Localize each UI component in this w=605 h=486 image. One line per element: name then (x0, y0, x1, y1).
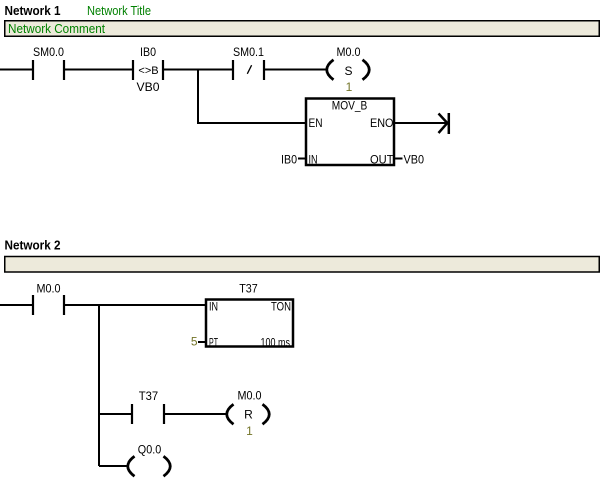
wire ENO output (394, 122, 447, 124)
svg-text:IN: IN (309, 153, 318, 167)
svg-text:Q0.0: Q0.0 (138, 443, 162, 457)
wire left rail to M0.0 (0, 304, 33, 306)
svg-text:SM0.1: SM0.1 (233, 45, 264, 59)
svg-text:M0.0: M0.0 (238, 389, 262, 403)
svg-text:Network Comment: Network Comment (8, 21, 105, 36)
svg-text:SM0.0: SM0.0 (33, 45, 64, 59)
pin IN dash (298, 158, 306, 160)
svg-text:VB0: VB0 (137, 80, 160, 94)
svg-text:ENO: ENO (370, 116, 394, 130)
contact M0.0 (33, 282, 64, 316)
network 1 header title (5, 3, 152, 18)
svg-text:IB0: IB0 (140, 45, 156, 59)
box MOV_B (306, 99, 394, 167)
wire SM0.0 to IB0 compare (64, 69, 133, 71)
coil M0.0 (R) 1 (227, 389, 270, 439)
svg-text:MOV_B: MOV_B (332, 99, 368, 113)
svg-text:Network 1: Network 1 (5, 3, 61, 18)
pin PT dash (198, 341, 206, 343)
contact T37 (132, 389, 164, 424)
wire branch to T37 contact (99, 413, 132, 415)
wire left rail to SM0.0 (0, 69, 33, 71)
open rung end arrow (439, 113, 449, 134)
wire branch junction down from rail (197, 69, 199, 124)
coil M0.0 (S) 1 (327, 45, 370, 94)
svg-text:<>B: <>B (138, 65, 158, 77)
svg-text:OUT: OUT (370, 153, 394, 167)
svg-text:M0.0: M0.0 (37, 282, 61, 296)
coil Q0.0 (128, 443, 171, 477)
svg-text:IB0: IB0 (281, 153, 297, 167)
svg-text:S: S (344, 64, 352, 78)
svg-text:T37: T37 (239, 282, 258, 296)
wire SM0.1 to coil M0.0 (264, 69, 328, 71)
svg-text:PT: PT (209, 336, 218, 350)
pin OUT dash (394, 158, 403, 160)
network 1 comment box (5, 21, 600, 37)
svg-text:Network Title: Network Title (87, 3, 151, 18)
wire M0.0 to T37 box (64, 304, 206, 306)
svg-text:R: R (244, 408, 253, 422)
svg-text:1: 1 (246, 424, 253, 438)
svg-text:5: 5 (191, 335, 198, 349)
svg-text:TON: TON (271, 300, 291, 314)
box T37 TON timer (206, 282, 293, 350)
svg-text:VB0: VB0 (404, 153, 425, 167)
network 2 comment box (5, 257, 600, 273)
svg-text:M0.0: M0.0 (337, 45, 361, 59)
svg-text:Network 2: Network 2 (5, 238, 61, 253)
svg-text:EN: EN (309, 116, 323, 130)
wire IB0 to SM0.1 (163, 69, 233, 71)
wire branch to MOV_B EN (197, 122, 306, 124)
wire branch vertical (98, 304, 100, 466)
svg-text:T37: T37 (139, 389, 159, 403)
contact SM0.0 (33, 45, 64, 80)
wire T37 to coil M0.0 R (164, 413, 228, 415)
contact SM0.1 (negated) (233, 45, 264, 80)
compare contact IB0 &lt;&gt;B VB0 (133, 45, 163, 94)
svg-text:100 ms: 100 ms (261, 336, 291, 350)
svg-text:1: 1 (346, 80, 353, 94)
wire corner to coil Q0.0 (99, 465, 129, 467)
svg-text:IN: IN (209, 300, 218, 314)
